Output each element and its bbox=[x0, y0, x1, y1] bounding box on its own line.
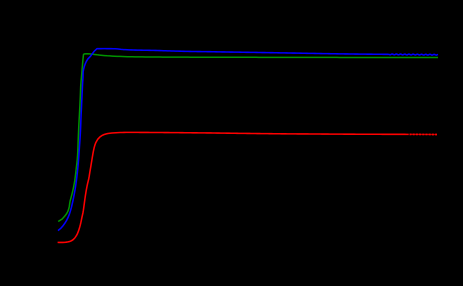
blue curve bbox=[58, 49, 438, 231]
red curve dotted tail (bright dashes) bbox=[410, 133, 438, 135]
red curve dotted tail (base) bbox=[410, 133, 438, 135]
green curve bbox=[58, 54, 438, 222]
red curve bbox=[58, 132, 409, 242]
